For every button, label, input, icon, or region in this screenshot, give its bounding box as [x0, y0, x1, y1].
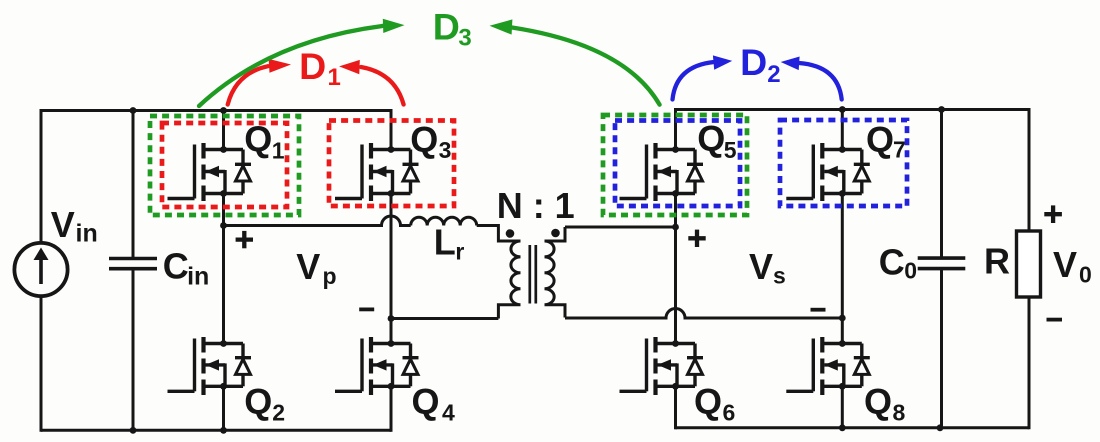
wire top-left rail — [41, 109, 391, 112]
label Q7 — [866, 119, 906, 163]
label Q3 — [410, 119, 451, 163]
svg-text:V: V — [51, 204, 75, 245]
green arrow D3 left — [199, 19, 405, 106]
minus sign V0 — [1047, 318, 1063, 322]
svg-text:Q: Q — [866, 119, 894, 160]
svg-text:L: L — [434, 222, 456, 263]
transistor Q6 — [620, 337, 704, 395]
svg-text:D: D — [299, 45, 326, 87]
label Q6 — [694, 381, 735, 425]
svg-text:8: 8 — [893, 400, 906, 426]
minus sign Vs — [811, 308, 826, 312]
minus sign Vp — [359, 307, 374, 311]
svg-text:Q: Q — [694, 381, 722, 422]
label C0 — [879, 242, 917, 284]
label Q2 — [244, 381, 285, 425]
svg-text:D: D — [433, 6, 460, 48]
label Cin — [163, 246, 210, 291]
red dashed box around Q1 — [162, 123, 287, 207]
svg-text:5: 5 — [724, 137, 737, 163]
red arrow D1 left — [228, 59, 291, 105]
wire secondary bottom with crossover hop — [565, 309, 846, 322]
label Vp — [296, 246, 336, 289]
svg-text:V: V — [1053, 244, 1077, 285]
blue arrow D2 right — [781, 57, 842, 100]
svg-text:in: in — [187, 263, 209, 291]
svg-text:R: R — [984, 241, 1010, 282]
svg-text:3: 3 — [439, 137, 452, 163]
svg-text:2: 2 — [272, 400, 285, 426]
wire bottom-left rail — [41, 429, 391, 432]
svg-text:Q: Q — [244, 381, 272, 422]
svg-text:Q: Q — [410, 119, 438, 160]
red arrow D1 right — [339, 60, 404, 105]
wire Lr to primary winding — [477, 226, 516, 242]
svg-text:4: 4 — [442, 400, 455, 426]
svg-text:7: 7 — [893, 137, 906, 163]
label N:1 — [497, 185, 575, 226]
svg-text:Q: Q — [864, 381, 892, 422]
transformer secondary winding — [545, 227, 566, 318]
label Vin — [51, 204, 98, 248]
svg-text:D: D — [740, 41, 767, 83]
wire primary top with crossover hop — [220, 216, 411, 229]
svg-text:Q: Q — [244, 118, 272, 159]
label Q1 — [244, 118, 285, 163]
svg-text:Q: Q — [697, 118, 725, 159]
svg-text:V: V — [296, 246, 320, 287]
label D2 — [740, 41, 781, 88]
wire leg Q7-Q8 — [839, 106, 846, 431]
wire leg Q1-Q2 — [220, 107, 227, 434]
svg-text:0: 0 — [1079, 262, 1092, 288]
label Q8 — [864, 381, 906, 425]
svg-text:p: p — [323, 263, 337, 289]
capacitor Cin — [109, 107, 157, 434]
label V0 — [1053, 244, 1092, 288]
transistor Q3 — [335, 143, 419, 201]
blue arrow D2 left — [673, 55, 733, 99]
svg-text:1: 1 — [328, 64, 341, 91]
transistor Q7 — [786, 143, 870, 201]
transistor Q2 — [168, 337, 252, 395]
label Vs — [749, 246, 786, 289]
transformer core — [530, 245, 536, 304]
transformer primary winding — [498, 241, 520, 319]
label D3 — [433, 6, 472, 52]
transistor Q4 — [335, 337, 419, 395]
transistor Q8 — [786, 337, 870, 395]
inductor Lr — [411, 217, 477, 225]
svg-text:C: C — [163, 246, 189, 287]
wire bottom-right rail — [676, 426, 1030, 429]
transistor Q1 — [168, 143, 252, 201]
plus sign V0 — [1044, 205, 1062, 223]
blue dashed box around Q7 — [780, 120, 907, 206]
svg-text:3: 3 — [458, 25, 471, 52]
label Q4 — [412, 381, 456, 425]
svg-text:N : 1: N : 1 — [497, 185, 575, 226]
svg-text:Q: Q — [412, 381, 440, 422]
svg-text:2: 2 — [767, 61, 780, 88]
svg-text:6: 6 — [723, 400, 736, 426]
polarity dot primary — [506, 229, 515, 238]
plus sign Vs — [688, 230, 705, 247]
wire secondary top — [565, 224, 679, 231]
blue dashed box around Q5 — [615, 121, 740, 207]
label Q5 — [697, 118, 737, 163]
label D1 — [299, 45, 341, 91]
wire leg Q5-Q6 — [674, 108, 677, 429]
polarity dot secondary — [551, 229, 560, 238]
plus sign Vp — [236, 231, 253, 248]
green dashed box around Q5 — [603, 115, 747, 215]
transistor Q5 — [620, 143, 704, 201]
label Lr — [434, 222, 465, 265]
svg-text:C: C — [879, 242, 905, 283]
wire primary bottom — [388, 315, 499, 322]
svg-text:1: 1 — [272, 137, 285, 163]
wire leg Q3-Q4 — [390, 109, 393, 432]
svg-text:r: r — [455, 239, 464, 265]
svg-text:in: in — [76, 220, 98, 248]
capacitor C0 — [918, 106, 966, 431]
wire top-right rail — [676, 108, 1030, 111]
green arrow D3 right — [490, 19, 660, 104]
svg-text:V: V — [749, 246, 773, 287]
label R — [984, 241, 1010, 282]
svg-text:s: s — [773, 263, 786, 289]
resistor R — [1017, 108, 1041, 429]
green dashed box around Q1 — [150, 116, 299, 215]
current source Vin — [14, 109, 67, 432]
svg-text:0: 0 — [904, 258, 917, 284]
red dashed box around Q3 — [329, 121, 454, 207]
